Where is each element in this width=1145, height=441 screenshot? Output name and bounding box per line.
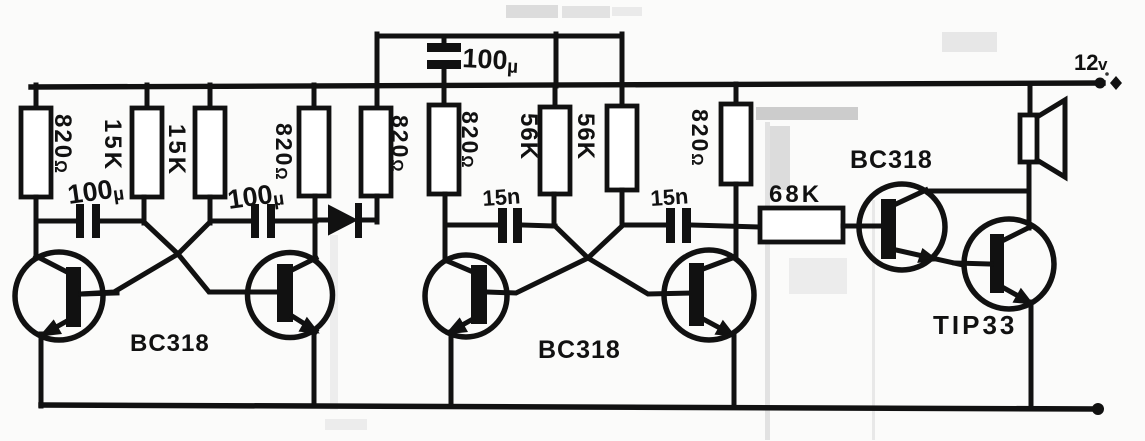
capacitor C1 100u <box>36 204 144 238</box>
svg-text:820Ω: 820Ω <box>49 114 76 175</box>
label 12v <box>1074 50 1109 76</box>
diode D1 <box>316 203 377 238</box>
label Q3 Q4 BC318 <box>538 336 621 364</box>
svg-text:15K: 15K <box>163 124 190 177</box>
resistor R4 820 <box>299 85 329 260</box>
svg-text:100µ: 100µ <box>66 172 126 211</box>
label C4 15n <box>482 183 522 211</box>
svg-text:68K: 68K <box>769 181 822 208</box>
bottom 0V rail <box>41 405 1097 409</box>
label C1 100u <box>66 172 126 211</box>
wire: speaker down lead <box>1027 161 1032 228</box>
label Q6 TIP33 <box>933 310 1017 340</box>
svg-text:100µ: 100µ <box>462 43 520 78</box>
wire: cross coupling R2 node to Q2 base <box>144 222 276 292</box>
label R10 68K <box>769 181 822 208</box>
svg-text:15K: 15K <box>99 119 126 172</box>
svg-text:56K: 56K <box>515 113 542 160</box>
label R8 56K <box>572 113 599 160</box>
svg-text:820Ω: 820Ω <box>687 109 713 168</box>
label Q1 Q2 BC318 <box>130 330 210 357</box>
label R9 820 <box>687 109 713 168</box>
node: rail end dot <box>1095 78 1106 89</box>
svg-text:100µ: 100µ <box>226 177 286 216</box>
top +12V rail <box>31 83 1103 87</box>
label C3 100u <box>462 43 520 78</box>
svg-text:56K: 56K <box>572 113 599 160</box>
capacitor C5 15n <box>622 208 761 243</box>
label R3 15K <box>163 124 190 177</box>
wire: cross coupling R3 node to Q1 base <box>81 222 210 294</box>
label R6 820 <box>457 111 483 170</box>
wire: cross coupling R8 node to Q3 base <box>486 226 622 293</box>
transistor Q6 TIP33 <box>955 219 1054 408</box>
wire: box left vertical <box>375 34 380 86</box>
label R7 56K <box>515 113 542 160</box>
svg-text:12: 12 <box>1074 50 1098 75</box>
capacitor C4 15n <box>445 208 555 243</box>
label C5 15n <box>650 183 690 211</box>
wire: box right vertical <box>620 34 625 86</box>
svg-text:15n: 15n <box>650 183 690 211</box>
resistor R3 15K <box>195 85 225 223</box>
svg-text:BC318: BC318 <box>130 330 210 357</box>
svg-text:v: v <box>1098 55 1108 74</box>
svg-text:BC318: BC318 <box>850 146 933 174</box>
svg-text:BC318: BC318 <box>538 336 621 364</box>
transistor Q2 BC318 <box>248 253 333 407</box>
node: bottom rail end dot <box>1092 403 1104 415</box>
node: 12V terminal diamond <box>1110 76 1122 90</box>
svg-text:TIP33: TIP33 <box>933 310 1017 340</box>
label Q5 BC318 <box>850 146 933 174</box>
label R4 820 <box>271 123 297 182</box>
svg-text:15n: 15n <box>482 183 522 211</box>
speaker LS1 <box>1020 84 1065 177</box>
wire: cross coupling R7 node to Q4 base <box>555 226 690 294</box>
svg-text:820Ω: 820Ω <box>457 111 483 170</box>
svg-text:820Ω: 820Ω <box>271 123 297 182</box>
scan noise patches <box>325 5 997 440</box>
wire: top box line <box>377 34 622 39</box>
wire: collector bus to speaker <box>922 189 1029 194</box>
capacitor C3 100u (top filter) <box>427 36 461 86</box>
wire: box middle vertical <box>554 34 559 86</box>
resistor R8 56K <box>607 85 637 225</box>
label R2 15K <box>99 119 126 172</box>
resistor R5 820 <box>361 85 391 222</box>
resistor R7 56K <box>540 85 570 225</box>
svg-text:820Ω: 820Ω <box>387 115 413 174</box>
resistor R10 68K <box>760 208 862 242</box>
transistor Q5 BC318 driver <box>859 184 963 270</box>
resistor R6 820 <box>429 86 459 261</box>
resistor R9 820 <box>721 84 751 257</box>
transistor Q1 BC318 <box>15 252 117 406</box>
label C2 100u <box>226 177 286 216</box>
label R5 820 <box>387 115 413 174</box>
transistor Q4 BC318 <box>664 250 754 407</box>
capacitor C2 100u <box>210 204 316 238</box>
transistor Q3 BC318 <box>425 255 507 406</box>
resistor R2 15K <box>132 85 162 223</box>
label R1 820 <box>49 114 76 175</box>
resistor R1 820 <box>21 85 51 258</box>
